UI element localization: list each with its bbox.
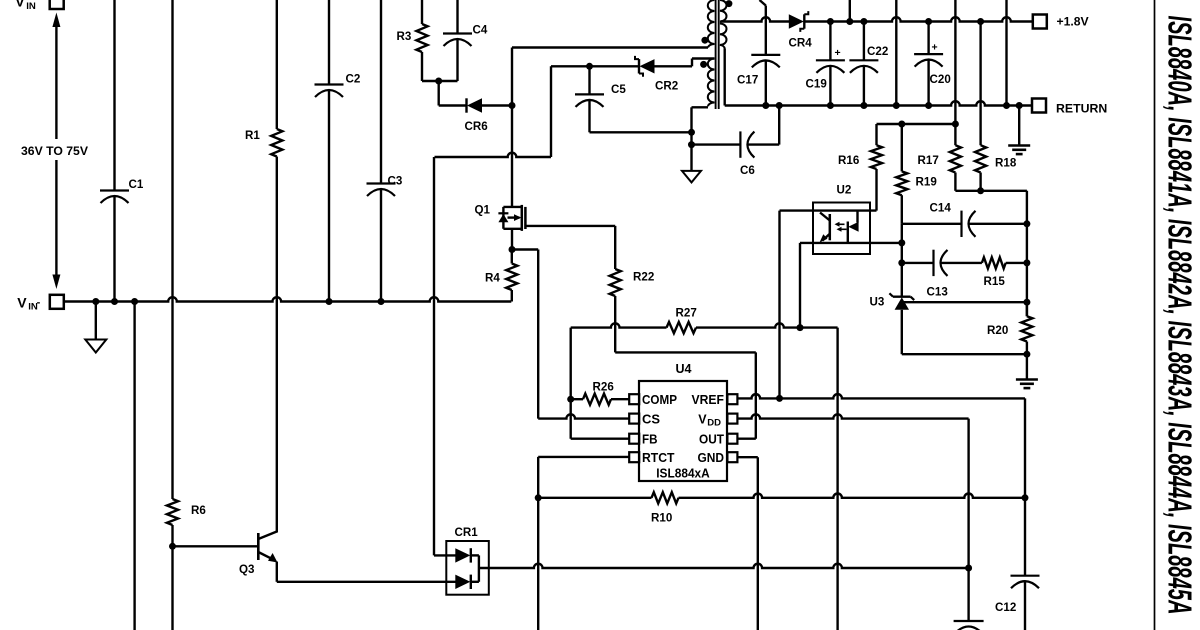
wire R17 bottom lead (954, 173, 956, 191)
node C6-RETURN (776, 102, 783, 109)
svg-text:+: + (932, 42, 938, 54)
optocoupler U2 (813, 184, 870, 255)
wire clamp top (551, 65, 590, 67)
wire C5 leads (588, 66, 590, 132)
svg-text:OUT: OUT (699, 432, 724, 446)
terminal RETURN (1032, 99, 1107, 116)
wire ref column (1026, 191, 1028, 316)
wire C6 line (692, 143, 780, 145)
svg-text:R16: R16 (838, 154, 860, 167)
node phase dot secondary (725, 0, 732, 7)
capacitor C3 (367, 175, 403, 197)
capacitor C22 (849, 22, 888, 106)
wire CS line (538, 414, 629, 418)
svg-text:V: V (15, 0, 25, 10)
wire gate line (525, 226, 615, 269)
svg-text:R22: R22 (633, 271, 654, 284)
resistor R15 (982, 257, 1006, 288)
svg-text:R26: R26 (593, 381, 615, 394)
svg-text:R27: R27 (676, 307, 697, 320)
resistor R1 (245, 129, 282, 157)
wire secondary bottom lead (724, 49, 726, 106)
wire R16 tie (877, 123, 956, 125)
wire column x134 (133, 302, 135, 630)
svg-text:C17: C17 (737, 74, 758, 87)
node rail-C2 (326, 298, 333, 305)
node RETURN gnd (1016, 102, 1023, 109)
node rail-gnd (92, 298, 99, 305)
svg-text:U4: U4 (676, 362, 692, 376)
pin VREF (692, 393, 738, 407)
wire CR6 cathode lead (439, 104, 467, 106)
node feed1006 (1003, 102, 1010, 109)
wire C17 bottom lead (765, 60, 767, 105)
wire OUT top link (615, 352, 756, 438)
svg-text:V: V (17, 294, 27, 310)
svg-text:C20: C20 (930, 73, 951, 86)
node ref-R15 (1023, 259, 1030, 266)
node rail-down1 (131, 298, 138, 305)
wire R3 bottom lead (421, 52, 423, 81)
wire R20 gnd stem (1026, 354, 1028, 379)
wire RTCT line (538, 457, 629, 630)
svg-text:U3: U3 (870, 296, 885, 309)
node feed896 (893, 102, 900, 109)
ground secondary RETURN (1008, 146, 1030, 155)
ground primary (682, 171, 701, 183)
resistor R6 (167, 499, 206, 525)
wire source to CS (512, 250, 538, 419)
resistor R3 (397, 24, 428, 52)
wire U3 anode (901, 310, 903, 354)
node RTCT-R10 (535, 494, 542, 501)
svg-text:C14: C14 (930, 202, 952, 215)
wire R1/Q3 column (276, 0, 278, 533)
capacitor C12 (995, 498, 1040, 630)
node C22 bottom (860, 102, 867, 109)
wire Q3 base (173, 545, 260, 547)
ground primary input (85, 340, 106, 353)
node R6-base junction (169, 543, 176, 550)
svg-text:C5: C5 (611, 83, 626, 96)
pin CS (629, 412, 660, 426)
svg-text:ISL8840A, ISL8841A, ISL8842A,: ISL8840A, ISL8841A, ISL8842A, ISL8843A, … (1162, 16, 1199, 615)
svg-text:R17: R17 (918, 154, 939, 167)
wire C14 line (902, 223, 1027, 225)
node R27-opto (797, 324, 804, 331)
wire C2 column (328, 0, 330, 302)
svg-text:CS: CS (642, 412, 660, 426)
wire U3 cathode lead (901, 224, 903, 297)
controller U4 box (639, 362, 727, 481)
node C20 top (925, 18, 932, 25)
svg-text:GND: GND (698, 451, 725, 465)
separator line (1154, 0, 1156, 630)
wire FB line (571, 438, 630, 440)
wire divider bottom (955, 190, 1027, 192)
wire C13 line (902, 262, 982, 264)
svg-text:VREF: VREF (692, 393, 725, 407)
node ref-C14 (1023, 220, 1030, 227)
wire RETURN gnd stem (1018, 106, 1020, 146)
svg-text:C12: C12 (995, 601, 1016, 614)
terminal VIN- (17, 294, 64, 312)
svg-text:CR6: CR6 (465, 120, 489, 133)
wire bias bottom (692, 106, 709, 108)
transistor Q1 (475, 204, 526, 231)
node R18 top rail (977, 18, 984, 25)
svg-text:-: - (37, 296, 41, 308)
wire C6 to RETURN (778, 106, 780, 145)
shunt reference U3 (870, 293, 915, 309)
wire R17 column (954, 0, 956, 145)
resistor R19 (896, 124, 937, 195)
node R19 top (898, 121, 905, 128)
terminal +1.8V (1033, 14, 1090, 28)
wire top feed x850 (849, 0, 851, 22)
wire snubber down (438, 81, 440, 106)
svg-text:R4: R4 (485, 272, 500, 285)
node COMP-R26 (567, 396, 574, 403)
wire R3 top lead (421, 0, 423, 24)
node R20 bottom (1023, 351, 1030, 358)
node VREF-opto (776, 395, 783, 402)
capacitor C1 (100, 178, 144, 203)
svg-text:C3: C3 (388, 175, 403, 188)
svg-text:CR2: CR2 (655, 80, 678, 93)
svg-text:CR1: CR1 (455, 526, 479, 539)
diode CR2 (635, 56, 678, 93)
node C5 top (586, 63, 593, 70)
pin VDD (698, 412, 737, 428)
node U2 cathode (898, 239, 905, 246)
node C19 bottom (827, 102, 834, 109)
wire C5 to CR2 (590, 65, 640, 67)
wire COMP node column (570, 328, 572, 439)
pin OUT (699, 432, 737, 446)
wire CR2 jog up (691, 59, 693, 67)
node R17 top (952, 121, 959, 128)
svg-text:C19: C19 (806, 78, 828, 91)
wire U3 anode to R20 (902, 353, 1027, 355)
node Q1 source (509, 246, 516, 253)
resistor R22 (610, 269, 655, 296)
svg-text:C4: C4 (473, 24, 488, 37)
diode CR6 (465, 98, 489, 133)
pin GND (698, 451, 738, 465)
wire comp soft column (836, 328, 838, 630)
transformer T1 primary winding (708, 0, 715, 48)
capacitor C6 (740, 131, 755, 177)
rectifier CR1 (446, 526, 489, 595)
wire GND pin lead (737, 457, 758, 630)
wire RETURN rail (725, 101, 1032, 105)
svg-text:R6: R6 (191, 504, 206, 517)
wire R19 bottom lead (901, 195, 903, 224)
resistor R4 (485, 250, 517, 302)
node feed850 (846, 18, 853, 25)
pin FB (629, 432, 657, 446)
resistor R10 (538, 492, 1025, 524)
capacitor C2 (315, 73, 361, 98)
wire column x172 (171, 0, 173, 630)
node pgnd-C6 (688, 141, 695, 148)
wire CR6 anode lead (482, 104, 512, 106)
node phase dot bias (700, 61, 707, 68)
diode CR4 (789, 11, 813, 49)
wire CR1 output (479, 564, 969, 568)
capacitor C20 (914, 22, 951, 106)
wire VREF line (737, 394, 1025, 398)
svg-text:DD: DD (707, 418, 721, 429)
node CR6-drain (509, 102, 516, 109)
wire Q3 emitter (277, 562, 457, 582)
wire OUT pin lead (737, 438, 756, 440)
wire R18 bottom lead (979, 173, 981, 191)
resistor R20 (987, 302, 1033, 354)
wire top feed x1006 (1005, 0, 1007, 106)
wire C4 bottom lead (456, 39, 458, 81)
wire C17 top feed (760, 0, 766, 55)
ground R20 (1016, 380, 1038, 389)
wire C4 top lead (456, 0, 458, 34)
pin COMP (629, 393, 677, 407)
svg-text:Q3: Q3 (239, 563, 255, 576)
node C22 top (860, 18, 867, 25)
wire CR1 anode column (434, 157, 457, 555)
svg-text:R19: R19 (916, 176, 938, 189)
resistor R26 (571, 381, 630, 405)
node rail-C3 (378, 298, 385, 305)
node C20 bottom (925, 102, 932, 109)
terminal VIN+ (15, 0, 64, 12)
wire bias top jog (692, 57, 714, 59)
node VREF-R10 (1022, 494, 1029, 501)
svg-text:+: + (835, 47, 841, 59)
wire top feed x896 (895, 0, 897, 106)
wire U3 ref line (904, 301, 1027, 303)
transformer T1 bias winding (708, 59, 715, 107)
wire C5 bottom link (590, 131, 692, 133)
wire R16 bottom lead (875, 169, 877, 211)
node cath-C13 (898, 259, 905, 266)
svg-text:+1.8V: +1.8V (1057, 14, 1090, 28)
wire R18 column (979, 22, 981, 146)
node C19 top (827, 18, 834, 25)
svg-text:C22: C22 (867, 45, 888, 58)
svg-text:RTCT: RTCT (642, 451, 675, 465)
wire +1.8V rail (721, 17, 1033, 21)
wire VDD down (967, 419, 969, 568)
svg-text:R10: R10 (651, 512, 672, 525)
svg-text:FB: FB (642, 432, 658, 446)
wire VREF down (1024, 398, 1026, 497)
svg-text:C6: C6 (740, 164, 755, 177)
node R3C4 (435, 78, 442, 85)
wire VIN- rail (65, 297, 511, 301)
svg-text:CR4: CR4 (789, 37, 813, 50)
wire Q1 source (511, 229, 513, 250)
wire opto emitter down (799, 243, 801, 328)
banner part numbers (1162, 16, 1199, 615)
capacitor C13 (927, 250, 949, 299)
node ref-R20 (1023, 299, 1030, 306)
svg-text:V: V (698, 412, 707, 426)
resistor R27 (571, 307, 838, 334)
svg-text:C1: C1 (129, 178, 144, 191)
transistor Q3 (239, 532, 278, 577)
wire U2 emitter line (800, 242, 902, 244)
node rail-C1 (111, 298, 118, 305)
svg-text:ISL884xA: ISL884xA (656, 466, 710, 481)
capacitor C14 (930, 202, 976, 238)
resistor R18 (975, 145, 1017, 172)
wire CR2 anode (655, 65, 693, 67)
svg-text:R1: R1 (245, 129, 260, 142)
wire gnd stem (95, 302, 97, 340)
capacitor C5 (575, 83, 626, 107)
wire VDD line (737, 414, 969, 418)
capacitor C17 (737, 55, 780, 87)
pin RTCT (629, 451, 675, 465)
svg-text:COMP: COMP (642, 393, 677, 407)
wire C1 column (113, 0, 115, 302)
svg-text:RETURN: RETURN (1056, 102, 1107, 116)
node phase dot primary (701, 37, 708, 44)
capacitor C10 (cut) (954, 568, 984, 630)
resistor R16 (838, 124, 882, 169)
wire opto collector down (778, 211, 780, 399)
wire R22 bottom lead (614, 296, 616, 352)
wire C3 column (380, 0, 382, 302)
svg-text:R20: R20 (987, 324, 1008, 337)
svg-text:R18: R18 (995, 157, 1017, 170)
node C17-RETURN (762, 102, 769, 109)
svg-text:U2: U2 (837, 184, 852, 197)
resistor R17 (918, 145, 962, 172)
wire Q1 drain (511, 106, 513, 207)
capacitor C19 (806, 22, 845, 106)
wire clamp link (435, 66, 552, 157)
svg-text:R15: R15 (984, 275, 1006, 288)
input range arrow 36V TO 75V (21, 13, 88, 290)
svg-text:IN: IN (26, 1, 36, 12)
svg-text:R3: R3 (397, 30, 412, 43)
svg-text:C13: C13 (927, 286, 949, 299)
wire U2 collector line (780, 209, 877, 211)
svg-text:C2: C2 (346, 73, 361, 86)
transformer T1 secondary winding (720, 0, 727, 49)
wire R15 to ref (1006, 262, 1027, 264)
wire primary to drain link (512, 48, 708, 106)
transformer T1 core (716, 0, 719, 109)
node pgnd-C5 (688, 129, 695, 136)
node CR1-VDD (965, 565, 972, 572)
node divider (977, 187, 984, 194)
capacitor C4 (443, 24, 488, 47)
svg-text:Q1: Q1 (475, 204, 491, 217)
svg-text:36V TO 75V: 36V TO 75V (21, 146, 88, 158)
wire R3-C4 join (422, 80, 458, 82)
wire primary gnd column (690, 107, 692, 171)
